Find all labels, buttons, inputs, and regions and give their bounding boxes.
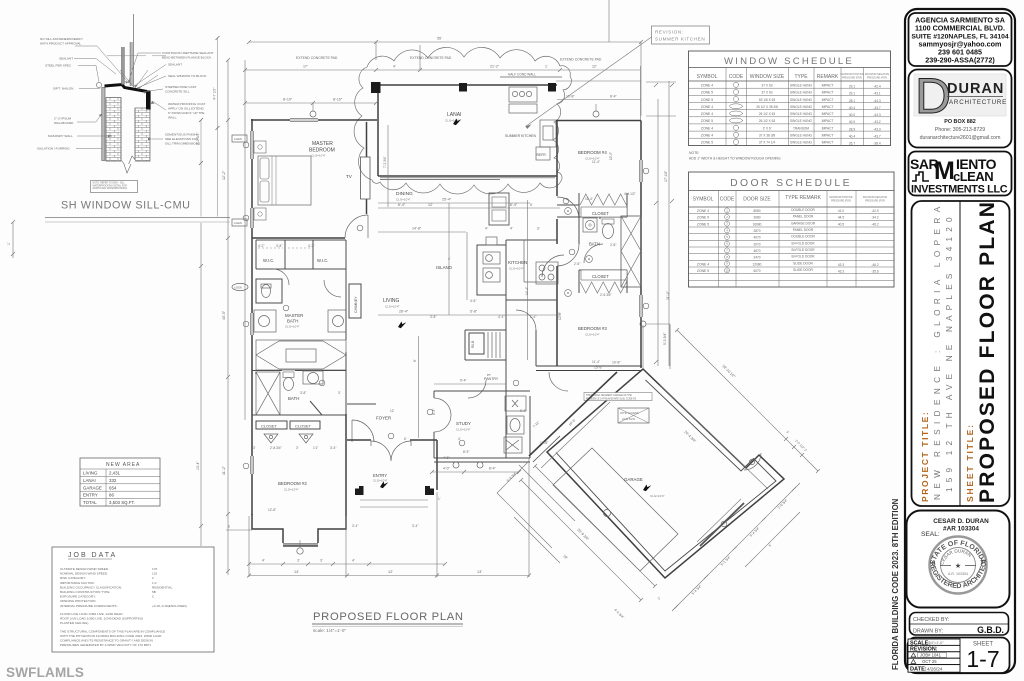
svg-text:TV: TV [346, 174, 353, 179]
svg-text:14'-4": 14'-4" [525, 287, 529, 295]
dim bottom main ticks [247, 574, 531, 578]
svg-text:7'-2 3/4": 7'-2 3/4" [383, 156, 387, 168]
door schedule header [693, 195, 822, 203]
svg-text:17'-10": 17'-10" [664, 170, 668, 182]
wall master bedroom south [252, 237, 345, 239]
garage north arrow [643, 485, 651, 492]
svg-text:SYMBOL: SYMBOL [693, 197, 714, 203]
left arrowheads [99, 81, 128, 137]
porch wall inner [533, 436, 560, 462]
bay circle symbol [297, 548, 303, 554]
svg-text:GARAGE: GARAGE [624, 477, 643, 482]
svg-text:29.1: 29.1 [849, 92, 855, 96]
door schedule zone column [697, 209, 709, 273]
wall bath2 north [252, 371, 346, 416]
svg-text:WITH PRODUCT APPROVAL: WITH PRODUCT APPROVAL [40, 42, 81, 46]
lanai walls [378, 85, 557, 176]
window schedule title row line [689, 67, 891, 69]
garage door [700, 503, 744, 546]
svg-text:IMPACT: IMPACT [822, 84, 834, 88]
masonry wall face left hatch [106, 98, 121, 162]
door schedule row lines [689, 214, 895, 281]
dim top ticks [247, 40, 643, 44]
svg-text:ZONE 5: ZONE 5 [697, 269, 709, 273]
lanai north arrow [453, 119, 461, 126]
svg-text:DOOR SCHEDULE: DOOR SCHEDULE [730, 178, 852, 189]
svg-text:cLEAN: cLEAN [953, 169, 993, 184]
svg-text:3': 3' [297, 559, 300, 563]
svg-text:CLOSET: CLOSET [592, 211, 609, 216]
garage note box [584, 393, 652, 401]
svg-text:SIP'T. NAILON: SIP'T. NAILON [53, 87, 73, 91]
svg-text:4'-2": 4'-2" [308, 244, 314, 248]
svg-text:3'-4": 3'-4" [330, 446, 336, 450]
svg-text:SLIDE DOOR: SLIDE DOOR [793, 268, 813, 272]
dim b3 corner circle [640, 321, 646, 327]
svg-text:W.I.C.: W.I.C. [263, 258, 274, 263]
steel circle [96, 82, 101, 87]
svg-text:1': 1' [438, 497, 441, 501]
door schedule outer frame [689, 172, 895, 287]
svg-text:WALL.: WALL. [168, 116, 177, 120]
vanity master left [254, 310, 276, 332]
dim living vertical [418, 336, 420, 438]
svg-text:IMPACT: IMPACT [822, 141, 834, 145]
svg-text:G.B.D.: G.B.D. [977, 625, 1004, 635]
svg-text:STUDY: STUDY [456, 421, 471, 426]
svg-text:-43.1: -43.1 [873, 92, 880, 96]
svg-text:PLASTER CEILING): PLASTER CEILING) [60, 621, 88, 625]
svg-text:CLG=10'4": CLG=10'4" [373, 479, 388, 483]
revision row [908, 645, 960, 651]
svg-text:ZONE 4: ZONE 4 [701, 84, 713, 88]
shower [256, 372, 280, 415]
dim garage sw 2 [521, 480, 641, 600]
svg-text:DOUBLE DOOR: DOUBLE DOOR [791, 208, 815, 212]
svg-text:ISLAND: ISLAND [436, 265, 452, 270]
svg-text:28.9: 28.9 [849, 127, 855, 131]
wall master bedroom top [251, 119, 377, 121]
svg-text:26 1/2 X 63: 26 1/2 X 63 [759, 119, 776, 123]
svg-text:PRESSURE (PSF): PRESSURE (PSF) [831, 199, 851, 202]
hall door arcs [542, 255, 564, 277]
svg-text:159 12 TH AVE NE NAPLES 34120: 159 12 TH AVE NE NAPLES 34120 [945, 212, 954, 492]
new area table [80, 458, 160, 506]
closet b4 zigzag [580, 194, 626, 205]
svg-text:8': 8' [255, 371, 258, 375]
dim ticks [199, 36, 220, 165]
entry post east [425, 486, 434, 495]
svg-text:RISK CATEGORY:: RISK CATEGORY: [60, 576, 86, 580]
svg-text:CHECKED BY:: CHECKED BY: [913, 617, 949, 623]
svg-text:2070: 2070 [753, 242, 760, 246]
svg-text:8': 8' [413, 359, 417, 362]
svg-text:17': 17' [303, 65, 308, 69]
dim line left margin bottom [200, 223, 202, 546]
svg-text:4': 4' [393, 65, 396, 69]
svg-text:NO SILL FASTENERS/VERIFY: NO SILL FASTENERS/VERIFY [40, 37, 83, 41]
svg-text:OPENING PROTECTION:: OPENING PROTECTION: [60, 599, 96, 603]
svg-text:3': 3' [537, 227, 540, 231]
svg-text:NOTE: REFER TO DWG - SILL: NOTE: REFER TO DWG - SILL [93, 183, 126, 185]
entry doors [371, 441, 411, 461]
duran logo panel [914, 74, 1006, 116]
seal dashes [940, 565, 951, 567]
svg-text:6" DOWN AND 6" UP THE: 6" DOWN AND 6" UP THE [168, 111, 204, 115]
svg-text:CONCRETE SILL: CONCRETE SILL [165, 90, 190, 94]
dim far left [12, 222, 14, 258]
bottom rule 1 [45, 217, 230, 219]
svg-text:OCT 25: OCT 25 [922, 659, 937, 664]
address box [909, 13, 1012, 66]
svg-text:11'-4": 11'-4" [585, 197, 593, 201]
svg-text:ULTIMATE DESIGN WIND SPEED:: ULTIMATE DESIGN WIND SPEED: [60, 567, 109, 571]
pantry shelves [488, 332, 500, 358]
dim 810 ticks [243, 101, 378, 105]
right labels [162, 51, 214, 146]
svg-text:2470: 2470 [753, 256, 760, 260]
svg-text:40.5: 40.5 [838, 222, 844, 226]
svg-text:3': 3' [338, 391, 341, 395]
svg-text:3': 3' [320, 559, 323, 563]
svg-text:DRAWN BY:: DRAWN BY: [913, 629, 943, 635]
svg-text:SINGLE HUNG: SINGLE HUNG [790, 141, 812, 145]
left leader lines [74, 46, 128, 149]
svg-text:ZONE 5: ZONE 5 [701, 141, 713, 145]
svg-text:CHIMNEY: CHIMNEY [354, 296, 358, 313]
door schedule header underline [689, 206, 895, 208]
svg-text:NEW AREA: NEW AREA [106, 462, 140, 468]
garage inner wall [556, 380, 776, 571]
garage corner arc [744, 453, 761, 470]
svg-text:D: D [915, 68, 951, 124]
svg-text:1'1": 1'1" [313, 446, 318, 450]
nightstand 1 [254, 141, 266, 153]
address text [911, 16, 1009, 65]
svg-text:ISULATION / FURRING: ISULATION / FURRING [37, 147, 70, 151]
svg-text:IMPACT: IMPACT [822, 119, 834, 123]
svg-text:37 X 63: 37 X 63 [762, 91, 773, 95]
svg-text:WATER PROOFING COAT: WATER PROOFING COAT [168, 102, 206, 106]
sink bath2 [308, 373, 319, 384]
svg-text:-43.7: -43.7 [873, 106, 880, 110]
svg-text:4'-7 1/2": 4'-7 1/2" [213, 87, 217, 100]
svg-text:EXTEND CONCRETE PAD: EXTEND CONCRETE PAD [410, 56, 452, 60]
svg-text:IMPACT: IMPACT [822, 134, 834, 138]
dim lanai 12 [378, 207, 560, 209]
svg-text:CODE: CODE [720, 197, 735, 203]
svg-text:★: ★ [955, 562, 961, 570]
svg-text:132: 132 [152, 572, 157, 576]
svg-text:CESAR D. DURAN: CESAR D. DURAN [933, 518, 989, 525]
summer kitchen grill [509, 87, 537, 102]
svg-text:GARAGE: GARAGE [83, 485, 102, 490]
svg-text:ATTIC ACCESS: ATTIC ACCESS [620, 411, 639, 415]
window schedule header underline [689, 80, 891, 82]
svg-text:CLG=10'4": CLG=10'4" [585, 333, 600, 337]
window bedroom2 bay [283, 543, 318, 546]
svg-text:E: E [228, 525, 230, 529]
wall foyer north [347, 403, 376, 405]
garage slab [553, 448, 678, 571]
svg-text:8'-10": 8'-10" [333, 98, 343, 102]
svg-text:SINGLE HUNG: SINGLE HUNG [790, 91, 812, 95]
svg-text:PANEL DOOR: PANEL DOOR [793, 228, 814, 232]
svg-text:6': 6' [404, 437, 407, 441]
svg-text:ZONE 4: ZONE 4 [701, 112, 713, 116]
dim line 810 [245, 102, 376, 104]
svg-text:DINING: DINING [396, 191, 413, 197]
fridge [469, 333, 484, 354]
svg-text:3'-8": 3'-8" [300, 391, 306, 395]
svg-text:THE STRUCTURAL COMPONENTS OF T: THE STRUCTURAL COMPONENTS OF THIS PLAN A… [60, 629, 165, 633]
svg-text:2'-2 3/4": 2'-2 3/4" [196, 132, 200, 145]
gypsum wallboard strip [102, 88, 105, 161]
island [477, 245, 506, 295]
duran architecture box [909, 70, 1012, 148]
svg-text:4': 4' [485, 227, 488, 231]
dim garage corner [643, 325, 670, 369]
rev row 2 [908, 658, 960, 664]
svg-text:MASONRY WALL: MASONRY WALL [48, 134, 73, 138]
summer kitchen counter [540, 120, 556, 147]
svg-text:3'-8": 3'-8" [276, 244, 282, 248]
svg-text:40.4: 40.4 [849, 135, 855, 139]
svg-text:DURAN: DURAN [947, 81, 1004, 97]
svg-text:ZONE 4: ZONE 4 [697, 209, 709, 213]
svg-text:scale: 1/4"=1'-0": scale: 1/4"=1'-0" [313, 628, 346, 633]
closet b4 walls [579, 193, 627, 217]
svg-text:FLORIDA BUILDING CODE 2023. 8T: FLORIDA BUILDING CODE 2023. 8TH EDITION [891, 498, 900, 670]
window schedule code symbols [730, 82, 743, 144]
window schedule pressure columns [849, 85, 881, 146]
column lanai 3 [548, 83, 556, 92]
svg-text:NOTE:: NOTE: [689, 151, 699, 155]
window master bedroom top [290, 119, 318, 122]
svg-text:1.0: 1.0 [152, 581, 157, 585]
svg-text:11'-4": 11'-4" [666, 290, 670, 300]
revision callout box [526, 26, 710, 129]
dim garage ne ticks [675, 328, 820, 473]
masonry wall face right hatch [135, 108, 150, 161]
svg-text:INVESTMENTS LLC: INVESTMENTS LLC [911, 184, 1008, 196]
dim interior 26-4 [378, 314, 560, 316]
wall corridor east [345, 269, 347, 414]
svg-text:#AR 103304: #AR 103304 [943, 526, 979, 533]
svg-text:25'-4": 25'-4" [442, 198, 452, 202]
right dim line 2 [217, 38, 219, 217]
svg-text:55': 55' [437, 37, 442, 41]
svg-text:26.7: 26.7 [849, 142, 855, 146]
svg-text:-44.3: -44.3 [873, 99, 880, 103]
svg-text:SINGLE HUNG: SINGLE HUNG [790, 105, 812, 109]
door schedule type column [791, 208, 816, 272]
svg-text:LIVING: LIVING [383, 298, 400, 304]
right leader lines [128, 53, 166, 139]
wall hall west [535, 330, 537, 366]
svg-text:1': 1' [7, 242, 11, 245]
sarmiento mclean box [909, 152, 1012, 196]
svg-text:SINGLE HUNG: SINGLE HUNG [790, 84, 812, 88]
dim garage se 1 ticks [674, 487, 796, 609]
svg-text:-34.2: -34.2 [871, 216, 878, 220]
svg-text:44.5: 44.5 [838, 216, 844, 220]
svg-text:RESIDENCE GYPSUM BOARD 5L BL C: RESIDENCE GYPSUM BOARD 5L BL CODE R3 [586, 397, 637, 400]
svg-text:14'-8": 14'-8" [412, 227, 422, 231]
svg-text:2,431: 2,431 [109, 471, 121, 476]
door schedule code circles [725, 208, 730, 273]
svg-text:37 X 63: 37 X 63 [762, 84, 773, 88]
seal text bottom [930, 560, 986, 588]
svg-text:2" GYPSUM: 2" GYPSUM [54, 117, 72, 121]
svg-text:RESIDENTIAL: RESIDENTIAL [152, 585, 173, 589]
kitchen counters [506, 240, 557, 300]
svg-text:ZONE 4: ZONE 4 [701, 126, 713, 130]
wall bedroom2 east [345, 414, 347, 514]
svg-text:BI-FOLD DOOR: BI-FOLD DOOR [791, 241, 815, 245]
dim 17 ticks [243, 68, 562, 72]
svg-text:duranarchitecture2601@gmail.co: duranarchitecture2601@gmail.com [920, 135, 1001, 141]
closet b3 walls [579, 270, 627, 293]
svg-text:4/26/24: 4/26/24 [927, 666, 943, 671]
door schedule size column [753, 209, 762, 273]
attic access box [618, 408, 649, 423]
svg-text:TRANSOM: TRANSOM [793, 126, 809, 130]
dim right wing ticks [654, 83, 674, 364]
svg-text:2'-8": 2'-8" [610, 243, 616, 247]
shear wall x-brace [621, 216, 641, 287]
svg-text:HALF CONC WALL: HALF CONC WALL [508, 73, 536, 77]
dim garage se 2 [745, 512, 800, 567]
toilet bath3 [583, 218, 597, 232]
entry north arrow [380, 482, 388, 489]
left margin oval [232, 283, 248, 290]
svg-text:MASTER: MASTER [312, 141, 333, 147]
svg-text:CONTINUOS URETHANE SEALANT: CONTINUOS URETHANE SEALANT [162, 51, 214, 55]
svg-text:26'-4": 26'-4" [399, 310, 409, 314]
dim garage sw 3 [497, 461, 529, 493]
svg-text:GARAGE DOOR: GARAGE DOOR [791, 221, 816, 225]
svg-text:CLOSET: CLOSET [261, 424, 278, 429]
svg-text:28.1: 28.1 [849, 99, 855, 103]
svg-text:M: M [934, 157, 955, 185]
svg-text:-43.2: -43.2 [873, 120, 880, 124]
precast sill thick [105, 85, 148, 92]
door arc foyer nw [352, 420, 374, 442]
svg-text:BUILDING CONSTRUCTION TYPE:: BUILDING CONSTRUCTION TYPE: [60, 590, 110, 594]
window schedule column lines [726, 68, 864, 146]
date row [908, 665, 960, 673]
svg-text:8'-4": 8'-4" [489, 467, 497, 471]
svg-text:40.0: 40.0 [849, 120, 855, 124]
checked/drawn box [910, 613, 1009, 636]
svg-text:WITH THE 8TH EDITION FLORIDA B: WITH THE 8TH EDITION FLORIDA BUILDING CO… [60, 634, 162, 638]
svg-text:CLOSET: CLOSET [295, 424, 312, 429]
sill drop leg [146, 91, 151, 110]
svg-text:8080: 8080 [753, 209, 760, 213]
svg-text:NOMINAL DESIGN WIND SPEED:: NOMINAL DESIGN WIND SPEED: [60, 572, 108, 576]
svg-text:9'-4": 9'-4" [520, 409, 526, 413]
svg-text:-35.6: -35.6 [871, 270, 878, 274]
svg-text:CLG=10'4": CLG=10'4" [311, 154, 326, 158]
door arc wic hall [273, 269, 289, 285]
right arrowheads [128, 79, 155, 140]
door arc master bedroom [345, 215, 368, 238]
svg-text:CLG=10'4": CLG=10'4" [509, 267, 524, 271]
svg-text:IMPACT: IMPACT [822, 91, 834, 95]
building icon [912, 172, 929, 181]
island sink [483, 252, 500, 264]
svg-text:IMPACT: IMPACT [822, 112, 834, 116]
right dim line 1 [200, 120, 202, 217]
svg-text:BI-FOLD DOOR: BI-FOLD DOOR [791, 248, 815, 252]
powder toilet [507, 416, 524, 434]
svg-text:PROPOSED FLOOR PLAN: PROPOSED FLOOR PLAN [976, 200, 999, 503]
title divider [959, 201, 961, 506]
svg-text:4'-4 1/2": 4'-4 1/2" [624, 192, 636, 196]
svg-text:ZONE 5: ZONE 5 [701, 91, 713, 95]
svg-text:3': 3' [253, 446, 256, 450]
window schedule remark column [822, 84, 834, 145]
seal text name [943, 553, 974, 569]
svg-text:CLG=10'4": CLG=10'4" [396, 198, 411, 202]
svg-text:4'-2": 4'-2" [258, 244, 264, 248]
svg-text:STEEL PER SPEC: STEEL PER SPEC [45, 64, 72, 68]
column lanai 2 [459, 83, 467, 92]
svg-text:16080: 16080 [753, 222, 762, 226]
wall bedroom4 top [556, 120, 641, 122]
window left wall 1 [251, 131, 254, 159]
svg-text:EXTEND CONCRETE PAD: EXTEND CONCRETE PAD [560, 58, 602, 62]
dim kitchen vertical [527, 200, 529, 360]
left labels [37, 37, 83, 151]
svg-text:L/GEN: L/GEN [234, 221, 242, 225]
svg-text:1'-4": 1'-4" [530, 315, 536, 319]
job data box [52, 547, 214, 652]
porch columns [453, 462, 459, 468]
seal outer circle [930, 537, 987, 594]
porch diagonal steps [497, 465, 575, 563]
window left wall 3 [251, 456, 254, 474]
svg-text:-46.2: -46.2 [871, 263, 878, 267]
door arc bedroom4 [557, 197, 579, 266]
svg-text:ZONE 5: ZONE 5 [697, 222, 709, 226]
svg-text:37 X 38 3/8: 37 X 38 3/8 [759, 134, 776, 138]
svg-text:CLG=10'4": CLG=10'4" [285, 325, 300, 329]
wall bedroom2 bay [252, 514, 346, 546]
svg-text:PROPOSED FLOOR PLAN: PROPOSED FLOOR PLAN [313, 611, 464, 623]
chimney [349, 284, 361, 318]
wall bottom break [106, 156, 150, 168]
svg-text:14': 14' [294, 570, 299, 574]
svg-text:CLOSET: CLOSET [592, 274, 609, 279]
svg-text:654: 654 [109, 485, 117, 490]
door schedule column lines [719, 191, 857, 288]
svg-text:6'-3": 6'-3" [432, 409, 436, 415]
svg-text:-43.7: -43.7 [873, 135, 880, 139]
svg-text:10: 10 [725, 268, 729, 272]
scale row [908, 639, 960, 645]
svg-text:12080: 12080 [753, 262, 762, 266]
svg-text:41.0: 41.0 [838, 209, 844, 213]
svg-text:ZONE 4: ZONE 4 [701, 105, 713, 109]
porch wall [529, 372, 617, 456]
svg-text:SUMMER KITCHEN: SUMMER KITCHEN [505, 134, 536, 138]
svg-text:4'-0": 4'-0" [443, 467, 451, 471]
svg-text:FOYER: FOYER [376, 416, 391, 421]
toilet master [262, 285, 271, 298]
dim garage se 1 [672, 483, 800, 611]
